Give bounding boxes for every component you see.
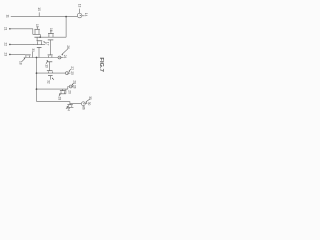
- transistor M5 backgate: [47, 61, 52, 63]
- wire I2 output: [61, 57, 64, 59]
- label 34 arrow: [66, 107, 68, 109]
- node bus row4: [36, 88, 38, 90]
- current source I1: [77, 13, 82, 18]
- wire I1 output: [82, 15, 85, 17]
- svg-text:14: 14: [84, 13, 88, 17]
- transistor M1 backgate: [34, 36, 39, 38]
- leader for label 10: [38, 12, 40, 16]
- node A: [39, 36, 41, 38]
- transistor M2 channel: [33, 41, 45, 44]
- svg-text:20: 20: [67, 90, 71, 94]
- transistor M3 backgate: [48, 39, 54, 41]
- svg-text:17: 17: [45, 42, 49, 46]
- svg-text:FIG.7: FIG.7: [98, 57, 104, 72]
- wire M1 backgate to M2 gate: [36, 37, 38, 41]
- label 36 leader tick: [82, 106, 84, 107]
- label 35 arrow: [86, 99, 90, 102]
- transistor M4 channel: [24, 56, 36, 58]
- wire M5 backgate down to M6 gate: [49, 62, 51, 71]
- svg-text:11: 11: [6, 15, 10, 19]
- wire top rail: [11, 16, 78, 18]
- svg-text:26: 26: [66, 45, 70, 49]
- wire bottom rail: [37, 101, 82, 103]
- wire M3 backgate down to M5 gate: [50, 40, 52, 55]
- transistor M5 channel arms: [48, 56, 52, 58]
- svg-text:13: 13: [77, 4, 81, 8]
- node bus row3: [36, 72, 38, 74]
- transistor M2 gate: [37, 40, 43, 42]
- transistor M7 gate tick: [62, 89, 64, 91]
- svg-text:19: 19: [44, 64, 48, 68]
- transistor M4 gate: [25, 54, 31, 56]
- wire node A to M3 channel: [40, 34, 67, 37]
- M4 top leader: [32, 52, 34, 58]
- svg-text:24: 24: [63, 55, 67, 59]
- transistor M3 gate: [48, 33, 54, 35]
- node bus row2: [36, 57, 38, 59]
- label 33 arrow: [59, 95, 60, 97]
- svg-text:35: 35: [88, 96, 92, 100]
- wire M7 drain up: [65, 89, 67, 94]
- wire input 2: [10, 29, 33, 35]
- current source I2: [58, 56, 61, 59]
- node input 4: [9, 54, 11, 56]
- transistor M7 channel: [59, 91, 66, 94]
- wire M2 backgate down to row2: [38, 48, 40, 58]
- transistor M5 gate: [48, 54, 53, 56]
- wire I4 output: [72, 86, 73, 88]
- current source I4: [69, 85, 72, 88]
- wire row3: [37, 72, 66, 74]
- label 18 arrow: [22, 59, 25, 62]
- svg-text:36: 36: [82, 106, 86, 110]
- svg-text:15: 15: [35, 24, 39, 28]
- node rail junction: [65, 16, 67, 18]
- svg-text:18: 18: [19, 61, 23, 65]
- wire I5 output: [85, 103, 87, 105]
- label 29 arrow: [72, 83, 74, 85]
- svg-text:22: 22: [3, 43, 7, 47]
- transistor M1 gate: [34, 28, 40, 30]
- svg-text:23: 23: [3, 53, 7, 57]
- wire bus vertical: [36, 58, 38, 102]
- label 27 arrow: [69, 69, 72, 71]
- svg-text:32: 32: [47, 80, 51, 84]
- label 17 arrow: [44, 42, 46, 44]
- wire input 3: [10, 43, 34, 45]
- wire input 4: [10, 53, 25, 55]
- wire row4: [37, 87, 70, 90]
- transistor M8 gate tick: [69, 104, 71, 105]
- transistor M8 channel: [67, 105, 74, 107]
- svg-text:28: 28: [72, 85, 76, 89]
- svg-text:21: 21: [3, 27, 7, 31]
- label 19 arrow: [46, 61, 48, 64]
- wire row2: [37, 57, 59, 59]
- svg-text:33: 33: [57, 97, 61, 101]
- wire M6 backgate lead: [49, 76, 51, 80]
- wire rail down to M3 drain lead: [65, 17, 67, 38]
- node input 3: [9, 44, 11, 46]
- current source I5: [81, 102, 85, 106]
- M1 gate leader: [36, 27, 38, 30]
- transistor M6 backgate: [48, 75, 53, 77]
- transistor M7 gate: [60, 90, 66, 92]
- label 32 arrow: [53, 78, 54, 80]
- svg-text:10: 10: [37, 7, 41, 11]
- svg-text:34: 34: [67, 107, 71, 111]
- transistor M2 backgate: [37, 47, 42, 49]
- transistor M6 gate: [47, 70, 53, 72]
- svg-text:30: 30: [87, 102, 91, 106]
- label 26 arrow: [62, 49, 68, 55]
- svg-text:31: 31: [31, 48, 35, 52]
- transistor M8 gate: [67, 104, 72, 106]
- wire M1 drain elbow: [39, 34, 41, 37]
- svg-text:25: 25: [70, 71, 74, 75]
- wire I3 output: [68, 72, 70, 74]
- transistor M1 channel: [33, 30, 41, 34]
- M3 gate leader: [50, 30, 52, 33]
- svg-text:27: 27: [70, 66, 74, 70]
- transistor M6 channel arms: [49, 71, 53, 73]
- current source I3: [65, 72, 68, 75]
- svg-text:29: 29: [73, 80, 77, 84]
- svg-text:16: 16: [49, 28, 53, 32]
- node input 2: [9, 28, 11, 30]
